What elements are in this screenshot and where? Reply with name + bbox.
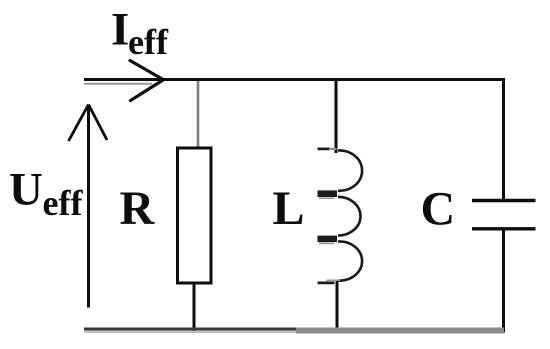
label I_eff — [111, 4, 169, 63]
inductor L coil — [318, 149, 363, 283]
wire bottom horizontal right segment (thick gray) — [296, 328, 504, 334]
wire L branch bottom — [336, 281, 339, 332]
wire L branch top — [335, 80, 338, 154]
wire gray shadow under top-left wire — [84, 83, 152, 85]
wire right branch bottom — [502, 229, 505, 333]
svg-text:eff: eff — [128, 22, 169, 62]
svg-text:U: U — [9, 164, 43, 216]
wire R branch bottom — [193, 283, 196, 332]
wire R branch top (gray) — [197, 81, 200, 148]
arrow for I_eff on top wire — [130, 61, 163, 101]
svg-text:eff: eff — [43, 183, 84, 223]
svg-text:L: L — [273, 182, 305, 235]
wire right branch top — [502, 78, 505, 201]
svg-text:I: I — [111, 4, 129, 56]
label U_eff — [9, 164, 83, 223]
wire top horizontal — [84, 78, 504, 81]
resistor R — [178, 148, 212, 283]
arrow for U_eff (left source arrow) — [69, 105, 108, 308]
svg-text:R: R — [120, 182, 156, 235]
wire bottom horizontal left segment (dark line with light shadow) — [84, 328, 298, 331]
capacitor C plates — [472, 201, 536, 229]
svg-text:C: C — [421, 183, 456, 236]
